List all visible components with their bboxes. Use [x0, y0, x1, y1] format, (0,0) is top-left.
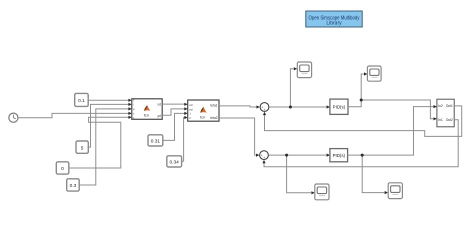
wire fcn1 xd to fcn2 port1: [162, 103, 188, 106]
svg-text:+: +: [263, 156, 265, 160]
svg-text:In1: In1: [438, 118, 443, 122]
wire 0.3 to fcn1 port3: [79, 107, 132, 185]
wire fcn2 teta2 to sum2: [219, 118, 259, 157]
svg-text:xd: xd: [157, 103, 161, 107]
wire fcn2 teta1 to sum1: [219, 105, 260, 108]
wire fcn1 yd to fcn2 port2: [162, 107, 188, 115]
svg-text:+: +: [264, 108, 266, 112]
constant 0: [56, 162, 69, 174]
clock: [9, 113, 18, 122]
wire sum2 to PID2 with branch to scope3: [269, 154, 330, 195]
wire clock to fcn1 port4: [18, 112, 132, 118]
wire 0.34 to fcn2 port4: [182, 116, 188, 161]
wire 5 to fcn1 port2: [88, 103, 132, 147]
wire 0.1 to fcn1 port1: [88, 99, 132, 102]
svg-text:0: 0: [61, 166, 64, 172]
constant 0.31: [148, 135, 163, 146]
svg-text:Out2: Out2: [446, 118, 453, 122]
constant 0.3: [67, 179, 80, 191]
svg-text:Out1: Out1: [446, 104, 453, 108]
wire subsystem Out2 feedback to sum2: [262, 120, 458, 167]
sum block 2: [260, 151, 269, 160]
subsystem block: [437, 99, 454, 127]
svg-text:0.3: 0.3: [70, 183, 77, 189]
scope 3: [315, 184, 329, 200]
PID controller 1: [330, 99, 348, 114]
scope 1: [297, 62, 311, 78]
sum block 1: [260, 103, 269, 112]
svg-text:fcn: fcn: [200, 115, 205, 119]
svg-text:PID(s): PID(s): [333, 105, 346, 110]
PID controller 2: [330, 149, 348, 162]
wire 0.31 to fcn2 port3: [163, 112, 188, 141]
svg-text:Library: Library: [326, 20, 342, 26]
wire 0 to fcn1 port5: [69, 116, 132, 168]
svg-text:fcn: fcn: [144, 114, 149, 118]
scope 2: [367, 66, 381, 81]
wire PID2 to subsystem In1 with branch to scope4: [348, 105, 437, 194]
MATLAB Function block fcn2: [188, 100, 219, 121]
wire subsystem Out1 feedback to sum1: [263, 106, 462, 136]
MATLAB Function block fcn1: [132, 99, 162, 120]
svg-text:xd: xd: [189, 103, 193, 107]
constant 5: [76, 141, 88, 153]
constant 0.1: [75, 93, 89, 106]
wire PID1 to subsystem In2 with branch to scope2: [348, 72, 437, 120]
svg-text:yd: yd: [157, 114, 161, 118]
svg-text:In2: In2: [438, 104, 443, 108]
svg-text:0.31: 0.31: [151, 138, 161, 144]
svg-text:teta2: teta2: [210, 116, 217, 120]
svg-text:0.34: 0.34: [170, 159, 180, 165]
svg-text:5: 5: [81, 145, 84, 151]
svg-text:PID(s): PID(s): [333, 153, 346, 158]
scope 4: [388, 183, 402, 199]
wire sum1 to PID1 with branch to scope1: [269, 67, 330, 108]
svg-text:0.1: 0.1: [78, 98, 85, 104]
library link button: [306, 11, 362, 27]
svg-text:yd: yd: [189, 107, 193, 111]
constant 0.34: [167, 156, 182, 167]
svg-text:teta1: teta1: [210, 103, 217, 107]
